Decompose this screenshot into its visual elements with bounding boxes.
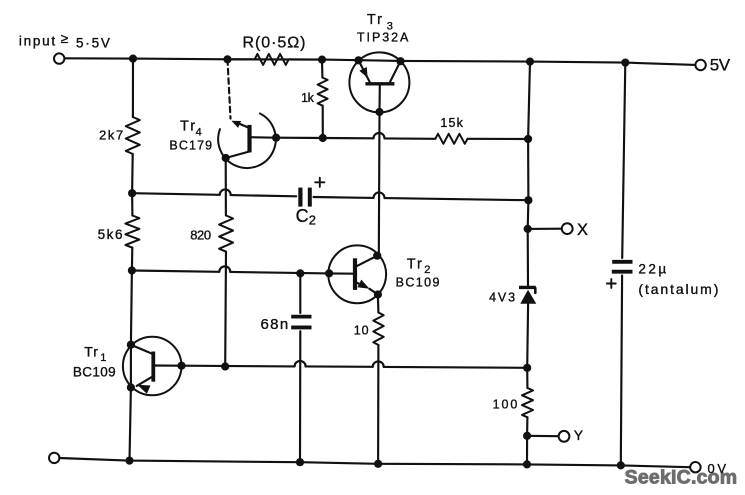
svg-text:BC109: BC109 [396, 276, 440, 290]
svg-text:4: 4 [196, 127, 202, 139]
svg-text:Tr: Tr [367, 12, 382, 28]
svg-text:(tantalum): (tantalum) [638, 281, 718, 297]
svg-text:BC109: BC109 [73, 364, 116, 379]
svg-text:≥: ≥ [61, 31, 68, 46]
svg-text:68n: 68n [261, 316, 289, 333]
svg-text:2k7: 2k7 [99, 128, 123, 143]
svg-text:100: 100 [493, 398, 518, 412]
svg-text:C: C [296, 206, 309, 226]
svg-text:Tr: Tr [180, 118, 195, 134]
svg-text:1k: 1k [301, 91, 315, 105]
svg-text:5V: 5V [710, 56, 731, 75]
svg-text:Tr: Tr [84, 343, 98, 359]
svg-text:R(0·5Ω): R(0·5Ω) [243, 35, 306, 52]
svg-text:15k: 15k [440, 116, 463, 130]
svg-text:820: 820 [190, 227, 211, 242]
svg-text:X: X [577, 221, 588, 239]
svg-text:5·5V: 5·5V [76, 35, 110, 50]
svg-text:0V: 0V [708, 461, 727, 476]
svg-text:22µ: 22µ [638, 262, 666, 277]
svg-text:2: 2 [309, 213, 316, 228]
svg-text:Tr: Tr [407, 257, 422, 273]
svg-text:10: 10 [354, 323, 369, 337]
svg-text:4V3: 4V3 [489, 290, 515, 304]
svg-text:Y: Y [574, 427, 584, 443]
svg-text:1: 1 [100, 352, 106, 364]
svg-text:2: 2 [424, 264, 430, 276]
svg-text:BC179: BC179 [169, 139, 212, 153]
svg-text:5k6: 5k6 [98, 227, 123, 242]
